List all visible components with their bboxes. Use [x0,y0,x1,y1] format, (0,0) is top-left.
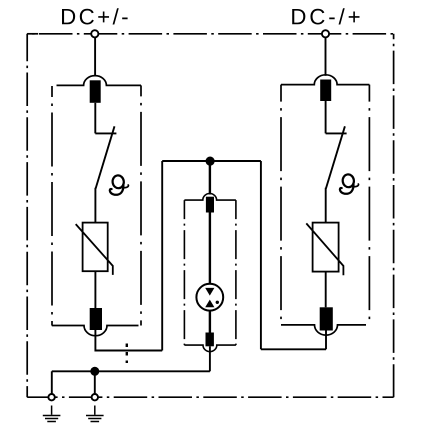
terminal earth left [48,394,54,400]
wire: left branch exit down and right [95,330,162,351]
right module box right edge [368,85,370,325]
wire: left fuse to switch stub [94,103,96,134]
label DC+/- [62,8,128,24]
outer device box: top edge [27,34,393,397]
terminal DC+/- [91,30,98,37]
wire: star top horizontal [162,160,261,162]
switch S1 contact tick [95,132,116,134]
center GDT module box [184,194,236,352]
varistor RV1 (left) [76,223,113,275]
outer device box: right edge [393,34,395,397]
gas discharge tube U1 circle [196,284,223,311]
wire: right riser down from star point [260,161,262,349]
wire: DC+/- terminal down to left disconnect [94,36,96,77]
wire: right varistor to lower fuse [325,272,327,308]
outer device box: top-left corner stub [27,33,38,35]
GDT box right edge [235,200,237,345]
disconnect fuse F1 (left top) [90,80,101,103]
wire: right switch to varistor [325,188,327,223]
right module box [281,75,369,335]
wire: GDT exit down to earth bus [209,346,211,371]
terminal DC-/+ [322,30,329,37]
GDT box bottom edge with hop [184,345,236,352]
wire: junction drop to earth terminal [94,371,96,393]
label DC-/+ [292,8,359,24]
terminal earth mid [92,394,98,400]
right module box top edge with hop [281,75,369,85]
wire: GDT shaft lower [209,307,211,333]
junction node star point [206,157,215,166]
wire: earth bus [52,370,210,372]
disconnect fuse F2 (right top) [320,80,331,102]
switch S1 blade [96,126,115,188]
FM linkage dotted line [126,344,128,364]
left module box (dash-dot sides, solid top/bottom with hops) [52,76,141,336]
GDT box left edge [183,200,185,345]
thermal symbol theta (right) [340,174,359,194]
wire: right branch exit down [325,331,327,350]
left module box top edge with hop [57,76,142,86]
GDT box top edge with hop [184,194,236,201]
wire: switch to varistor [94,188,96,223]
GDT upper electrode rect [206,197,214,213]
wire: GDT feed from star point [209,161,211,195]
wire: earth bus left drop to terminal [51,371,53,393]
left module box right edge [140,85,142,325]
switch S2 blade [326,126,345,188]
right module box bottom edge with hop [281,325,366,335]
thermal symbol theta (left) [110,175,129,195]
outer device box: left edge [26,34,28,397]
left module box bottom edge with hop [52,326,139,336]
left module box left edge [51,86,53,326]
switch S2 contact tick [326,132,347,134]
disconnect fuse F4 (right bottom) [320,307,333,330]
right module box left edge [280,85,282,325]
outer device box: bottom edge [27,396,393,398]
ground symbol left [43,406,61,422]
wire: GDT shaft upper [209,213,211,289]
ground symbol mid [86,406,104,422]
wire: left riser up to star point [161,161,163,351]
wire: bottom right horizontal to right branch [261,348,326,350]
junction node earth bus [90,367,99,376]
varistor RV2 (right) [306,223,343,276]
disconnect fuse F3 (left bottom) [90,308,102,330]
wire: right fuse to switch stub [325,101,327,134]
wire: varistor to lower fuse [94,271,96,308]
GDT bottom arrow [205,300,214,308]
GDT gas dot [216,301,219,304]
wire: DC-/+ terminal down to right disconnect [325,36,327,76]
GDT lower electrode rect [206,333,214,347]
GDT top arrow [205,288,214,296]
